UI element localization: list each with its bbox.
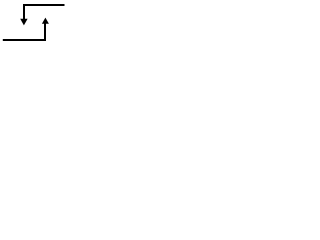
arrowhead pointing down at end of falling-edge trace xyxy=(20,19,27,26)
wire: rising-edge trace (bottom horizontal then vertical rise) xyxy=(3,24,45,41)
wire: falling-edge trace (top horizontal then vertical drop) xyxy=(24,5,65,19)
arrowhead pointing up at end of rising-edge trace xyxy=(42,18,49,24)
